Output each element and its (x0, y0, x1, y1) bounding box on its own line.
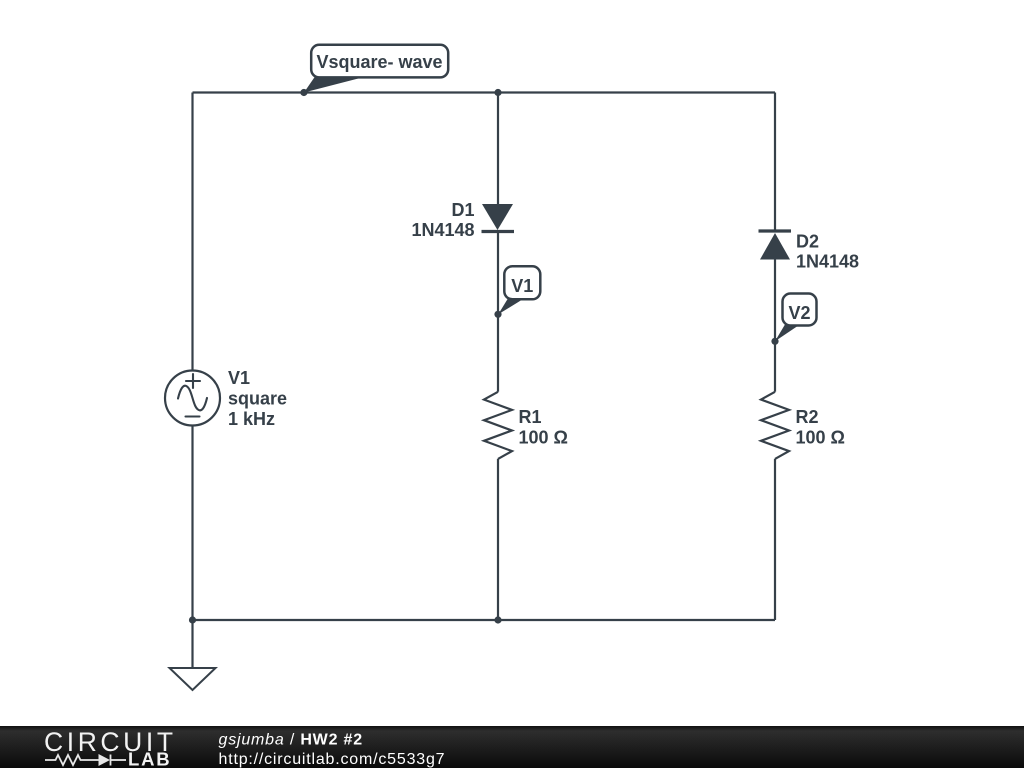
svg-text:1N4148: 1N4148 (796, 252, 859, 272)
svg-text:LAB: LAB (128, 749, 171, 768)
svg-text:100 Ω: 100 Ω (796, 428, 845, 448)
svg-text:1N4148: 1N4148 (411, 220, 474, 240)
svg-text:V2: V2 (788, 303, 810, 323)
svg-text:V1: V1 (228, 368, 250, 388)
svg-text:square: square (228, 389, 287, 409)
svg-text:Vsquare- wave: Vsquare- wave (316, 52, 442, 72)
svg-text:D1: D1 (451, 200, 474, 220)
svg-text:100 Ω: 100 Ω (519, 428, 568, 448)
svg-text:1 kHz: 1 kHz (228, 409, 275, 429)
svg-text:http://circuitlab.com/c5533g7: http://circuitlab.com/c5533g7 (219, 751, 446, 768)
svg-text:R1: R1 (519, 407, 542, 427)
svg-text:gsjumba / HW2 #2: gsjumba / HW2 #2 (219, 732, 363, 749)
svg-text:D2: D2 (796, 232, 819, 252)
svg-text:R2: R2 (796, 407, 819, 427)
svg-text:V1: V1 (511, 276, 533, 296)
